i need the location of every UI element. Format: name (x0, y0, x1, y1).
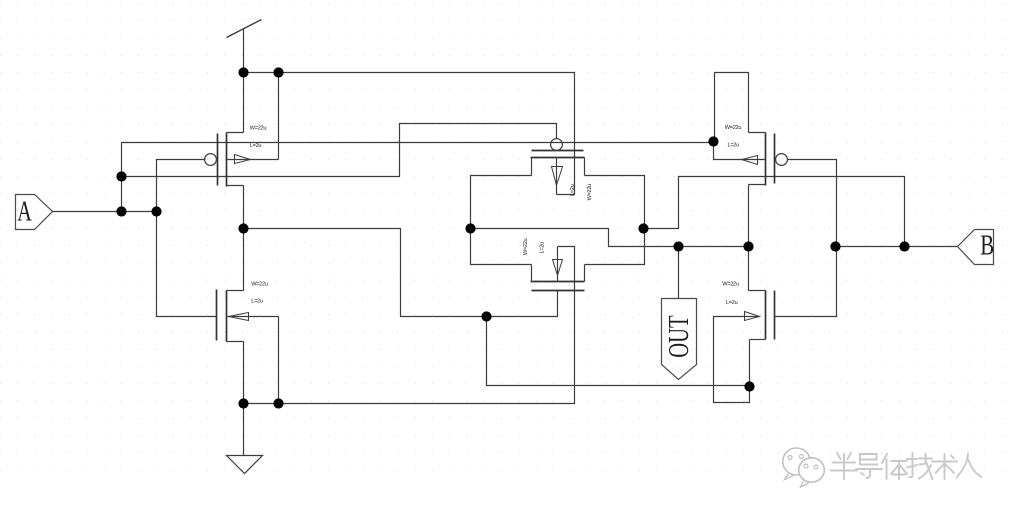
wire left inverter gate column up (PMOS gate) (157, 160, 206, 212)
port B (958, 230, 994, 265)
svg-text:W=22u: W=22u (725, 125, 742, 131)
transistor M2 left NMOS (217, 290, 279, 342)
wire left inverter gate column down (NMOS gate) (157, 212, 217, 317)
wire M2 source down to ground rail (243, 342, 245, 404)
junction VDD rail right (273, 67, 283, 77)
VDD power symbol (227, 20, 262, 73)
wire M3 right terminal (585, 176, 645, 229)
wire M2 drain up to output node (243, 229, 245, 291)
svg-text:W=22u: W=22u (523, 238, 529, 255)
wire M6 gate to node B (775, 247, 837, 317)
svg-text:A: A (17, 197, 32, 228)
transistor M5 right PMOS (714, 133, 788, 186)
wire M2 bulk riser to ground (278, 317, 280, 404)
svg-text:L=2u: L=2u (726, 300, 738, 306)
wire node Abar to right NMOS source (y=386) (487, 317, 750, 386)
wire ground stem (243, 404, 245, 456)
wire TG right terminal to node B (via top jog) (644, 177, 905, 247)
junction TG left terminal (465, 223, 475, 233)
wire ground rail to TG NMOS bulk (244, 247, 575, 404)
port OUT (662, 299, 697, 380)
transistor M4 TG NMOS (531, 247, 585, 291)
watermark wechat icon (783, 448, 825, 487)
wire VDD rail to TG PMOS bulk (244, 73, 575, 195)
wire M1 source to output node (243, 186, 245, 229)
transistor M3 TG PMOS (531, 139, 585, 195)
svg-text:W=22u: W=22u (587, 184, 593, 201)
junction node Abar (481, 311, 491, 321)
junction right pair gates (830, 241, 840, 251)
wire M5 gate to node B (788, 160, 837, 247)
svg-text:L=2u: L=2u (251, 299, 263, 305)
wire M1 drain to VDD (243, 73, 245, 133)
svg-text:L=2u: L=2u (540, 242, 546, 254)
ground symbol (227, 456, 263, 474)
junction TG right terminal (638, 223, 648, 233)
wire node A riser (121, 143, 123, 212)
wire M5 source down to out node (748, 185, 750, 247)
svg-text:W=22u: W=22u (251, 282, 268, 288)
junction OUT tap (673, 241, 683, 251)
wire inverter1 output to node Abar (244, 229, 487, 317)
svg-text:OUT: OUT (664, 315, 695, 357)
junction right pair mid node (743, 241, 753, 251)
svg-text:W=22u: W=22u (250, 126, 267, 132)
svg-text:B: B (980, 231, 994, 262)
junction VDD rail left (238, 67, 248, 77)
svg-text:W=22u: W=22u (722, 282, 739, 288)
junction node A at input line (116, 206, 126, 216)
svg-text:L=2u: L=2u (250, 143, 262, 149)
wire net A to right PMOS drain (y=142) (122, 142, 714, 144)
junction node A at y=176.6 (116, 171, 126, 181)
wire M4 right terminal (585, 229, 645, 265)
wire A input (53, 211, 157, 213)
port A (16, 195, 53, 230)
wire M4 left terminal (471, 229, 532, 265)
wire M3 left terminal (471, 176, 532, 229)
wire net A to TG PMOS gate (122, 124, 557, 177)
svg-text:L=2u: L=2u (728, 142, 740, 148)
transistor M6 right NMOS (714, 291, 775, 403)
junction right NMOS source node (744, 381, 754, 391)
wire M6 drain up to out node (748, 247, 750, 291)
wire M5 drain loop to node A (715, 73, 749, 142)
junction ground rail right (273, 398, 283, 408)
wire TG input line from inverter1 to OUT row (471, 229, 749, 247)
junction right PMOS drain node (708, 136, 718, 146)
transistor M1 left PMOS (205, 133, 279, 187)
junction node B (899, 241, 909, 251)
junction inverter gates tap (151, 206, 161, 216)
wire OUT tap (678, 247, 680, 299)
svg-text:L=2u: L=2u (570, 184, 576, 196)
watermark text 半导体技术人 (831, 453, 982, 479)
wire M6 source down to y=386 (749, 340, 751, 387)
wire node B to port B (836, 246, 958, 248)
wire node Abar to TG NMOS gate (487, 291, 558, 317)
wire left PMOS bulk riser to VDD (278, 73, 280, 160)
junction inverter1 output (238, 223, 248, 233)
junction ground rail left (238, 398, 248, 408)
